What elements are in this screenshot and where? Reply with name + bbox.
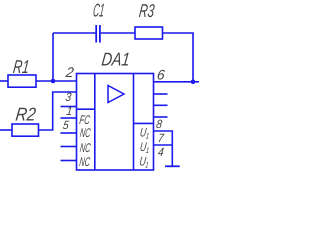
svg-text:1: 1 bbox=[66, 104, 74, 118]
svg-text:8: 8 bbox=[155, 117, 163, 131]
wire pin 7 to ground drop bbox=[154, 131, 173, 166]
svg-text:R3: R3 bbox=[138, 0, 156, 21]
svg-text:R1: R1 bbox=[12, 56, 31, 77]
node junction dot right output bbox=[191, 80, 196, 85]
op-amp triangle symbol bbox=[108, 86, 124, 103]
svg-text:NC: NC bbox=[79, 141, 92, 155]
svg-text:FC: FC bbox=[79, 113, 92, 127]
svg-text:R2: R2 bbox=[15, 104, 38, 125]
wire NC stub left 3 bbox=[61, 160, 77, 162]
wire NC stub right 2 bbox=[154, 104, 168, 106]
wire NC stub left 2 bbox=[61, 146, 77, 148]
ground bbox=[165, 165, 180, 167]
wire pin 1 stub bbox=[61, 106, 77, 108]
svg-text:U1: U1 bbox=[139, 155, 150, 170]
resistor R1 bbox=[0, 80, 8, 82]
svg-text:DA1: DA1 bbox=[101, 49, 132, 70]
svg-text:U1: U1 bbox=[139, 140, 150, 155]
svg-text:2: 2 bbox=[64, 64, 75, 80]
wire R1 to op-amp pin 2 bbox=[36, 80, 77, 82]
wire R2 up to pin 3 bbox=[39, 92, 77, 130]
resistor R2 bbox=[0, 129, 12, 131]
op-amp U1 body DA1 bbox=[77, 74, 154, 171]
wire NC stub right 1 bbox=[154, 93, 168, 95]
node junction dot left bbox=[51, 79, 56, 84]
wire pin 4 to ground drop bbox=[154, 144, 173, 146]
svg-text:3: 3 bbox=[65, 90, 73, 104]
svg-text:NC: NC bbox=[79, 126, 92, 140]
wire C1 to R3 bbox=[101, 32, 135, 34]
svg-text:U1: U1 bbox=[139, 126, 150, 141]
svg-text:C1: C1 bbox=[92, 0, 106, 20]
wire pin 8 stub bbox=[154, 116, 168, 118]
svg-text:7: 7 bbox=[157, 131, 166, 145]
wire R3 to right corner, down to output node bbox=[163, 33, 194, 82]
wire NC stub left 1 bbox=[61, 132, 77, 134]
svg-text:NC: NC bbox=[79, 155, 92, 169]
wire pin 5 stub bbox=[61, 117, 77, 119]
svg-text:5: 5 bbox=[62, 118, 70, 132]
svg-text:6: 6 bbox=[156, 67, 166, 83]
svg-text:4: 4 bbox=[157, 145, 165, 159]
wire top-left vertical from node A down to R1 junction bbox=[52, 33, 54, 81]
wire pin 6 output to right edge bbox=[154, 81, 200, 83]
wire top horizontal to capacitor C1 bbox=[53, 32, 95, 34]
capacitor C1 bbox=[95, 25, 97, 43]
resistor R3 bbox=[135, 27, 163, 39]
